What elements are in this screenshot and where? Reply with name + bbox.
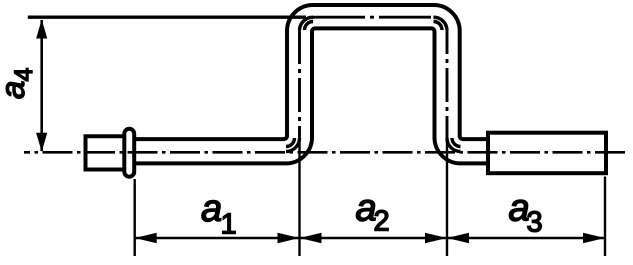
extension line left bend axis (a1/a2): [298, 140, 300, 256]
label a3: [509, 188, 543, 239]
label a1: [201, 188, 237, 241]
svg-text:3: 3: [527, 207, 543, 239]
label a2: [356, 188, 390, 238]
svg-text:1: 1: [221, 209, 237, 241]
arrowhead a2 right: [425, 233, 447, 243]
extension line grip end (a3 right): [604, 177, 606, 257]
arrowhead a4 up: [36, 20, 47, 39]
bend C centerline arc (upper-right): [434, 17, 448, 30]
bend D centerline arc (lower-right): [447, 138, 461, 152]
axis centerline top / a4 extension line: [28, 16, 306, 19]
arrowhead a3 right: [583, 233, 605, 243]
arrowhead a4 down: [36, 133, 47, 152]
flange collar: [124, 129, 134, 177]
svg-text:4: 4: [10, 68, 38, 82]
arrowhead a2 left: [300, 233, 322, 243]
dimension line a1: [135, 237, 300, 240]
dimension line a2: [300, 237, 448, 240]
bend B inner arc: [305, 22, 314, 31]
a4 dimension line: [40, 20, 43, 151]
extension line right bend axis (a2/a3): [446, 140, 448, 256]
bend A centerline arc (lower-left): [286, 138, 300, 152]
bend C inner arc: [434, 22, 443, 31]
svg-text:a: a: [0, 81, 31, 99]
axis centerline right vertical (dash-dot): [446, 30, 449, 138]
extension line flange (a1 left): [133, 179, 135, 256]
bend D inner arc: [452, 138, 461, 147]
axis centerline top dash-dot over tube: [313, 16, 434, 19]
bend B centerline arc (upper-left): [300, 17, 314, 30]
dimension line a3: [447, 237, 605, 240]
axis centerline bottom (shaft/grip axis, dash-dot): [24, 151, 626, 154]
arrowhead a1 left: [135, 233, 157, 243]
crank tube outline, upper/inner boundary: [136, 5, 488, 139]
bend A inner arc: [286, 138, 295, 147]
svg-text:2: 2: [374, 206, 390, 238]
label a4 (rotated): [0, 68, 38, 100]
svg-text:a: a: [201, 188, 222, 230]
handle grip rectangle: [488, 133, 606, 174]
crank tube outline, lower/outer boundary: [136, 28, 488, 163]
shaft stub rectangle: [86, 136, 125, 169]
arrowhead a3 left: [447, 233, 469, 243]
axis centerline left vertical (dash-dot): [298, 30, 301, 138]
arrowhead a1 right: [278, 233, 300, 243]
